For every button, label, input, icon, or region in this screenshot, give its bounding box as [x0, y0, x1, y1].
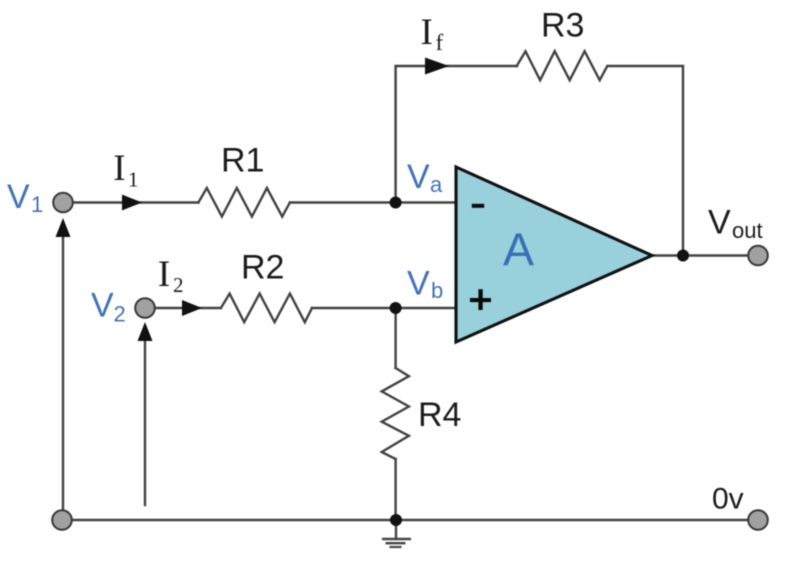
svg-text:V: V: [708, 204, 731, 242]
svg-text:V: V: [91, 287, 114, 325]
svg-text:I: I: [421, 12, 433, 53]
svg-text:out: out: [732, 218, 763, 243]
svg-text:2: 2: [114, 302, 126, 327]
svg-text:f: f: [436, 30, 444, 55]
svg-text:R4: R4: [418, 396, 461, 434]
svg-text:1: 1: [31, 192, 43, 217]
svg-text:V: V: [407, 265, 430, 303]
svg-text:I: I: [113, 148, 125, 189]
svg-text:2: 2: [173, 273, 184, 297]
svg-text:R3: R3: [541, 7, 584, 45]
svg-text:a: a: [430, 172, 443, 197]
svg-text:V: V: [407, 158, 430, 196]
svg-text:R1: R1: [221, 142, 264, 180]
svg-text:A: A: [503, 224, 534, 276]
svg-text:b: b: [431, 278, 443, 303]
svg-text:1: 1: [128, 168, 139, 192]
svg-text:0v: 0v: [712, 483, 744, 516]
svg-text:R2: R2: [241, 248, 284, 286]
svg-text:V: V: [7, 178, 30, 216]
svg-text:I: I: [158, 254, 170, 295]
